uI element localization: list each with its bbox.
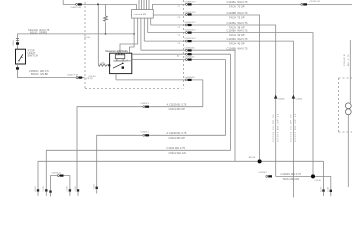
bottom connector at x323.5 <box>320 187 324 196</box>
connector C0408 row1 <box>185 3 191 5</box>
svg-text:C1245A WH 0.75: C1245A WH 0.75 <box>227 29 248 33</box>
connector C0407 on top feed wire <box>76 3 82 5</box>
svg-text:2 C03: 2 C03 <box>94 184 96 189</box>
node junction at x134 <box>133 33 135 35</box>
harness dashed boundary left <box>84 2 86 89</box>
relay pin nub <box>108 64 110 66</box>
wire row2 <box>153 15 259 159</box>
svg-text:C1234 WH 0.75: C1234 WH 0.75 <box>167 146 186 150</box>
svg-text:B1613 OP/RD: B1613 OP/RD <box>30 30 47 34</box>
svg-text:C8: C8 <box>178 17 180 19</box>
svg-text:C0375A 14: C0375A 14 <box>52 172 61 175</box>
switch contact blade <box>19 54 23 61</box>
relay coil output to right edge <box>127 60 132 61</box>
arrow on row3 drop wire <box>274 95 278 99</box>
svg-text:1K2: 1K2 <box>101 62 104 64</box>
bottom connector at x330.8 <box>328 187 332 196</box>
svg-text:C0408 W 5: C0408 W 5 <box>185 2 197 4</box>
svg-text:C0048 B: C0048 B <box>344 54 346 66</box>
svg-text:C0414 A 2: C0414 A 2 <box>185 56 196 59</box>
svg-text:B1613: B1613 <box>249 157 256 159</box>
wire bottom bus B1613 <box>38 161 324 189</box>
wire row1 <box>153 4 352 9</box>
svg-text:C0552: C0552 <box>13 40 15 46</box>
right reverse lamp bulb <box>345 103 351 109</box>
svg-text:1 C03: 1 C03 <box>328 187 330 192</box>
splice ticks on switch feed <box>16 38 19 40</box>
wire from right lamp to bottom <box>347 115 349 187</box>
connector square on switch feed <box>16 42 19 44</box>
wire row4 <box>148 33 313 175</box>
connector C0425 on relay coil row mid <box>143 134 149 136</box>
svg-text:C0375B 2: C0375B 2 <box>259 172 267 174</box>
svg-text:C2: C2 <box>178 27 180 29</box>
bottom connector at x38 <box>35 186 39 195</box>
wire resistor branch upper <box>105 4 107 34</box>
svg-text:C0411 WH-GN: C0411 WH-GN <box>169 151 186 155</box>
connector C0414 relay coil row <box>185 59 191 61</box>
svg-text:C1245A WH 0.75: C1245A WH 0.75 <box>227 0 248 4</box>
svg-text:TACH 30 OP: TACH 30 OP <box>229 33 245 37</box>
svg-text:C1245B WH 0.75: C1245B WH 0.75 <box>227 46 248 50</box>
wire relay contact row <box>77 80 203 189</box>
connector C0410 row3 <box>185 24 191 26</box>
svg-text:C1245A WH 0.75: C1245A WH 0.75 <box>227 21 248 25</box>
switch output wire <box>18 64 85 78</box>
svg-text:WH 0.75: WH 0.75 <box>348 54 350 66</box>
svg-text:C1245B WH 0.75: C1245B WH 0.75 <box>227 11 248 15</box>
stop light switch S1 <box>16 49 26 64</box>
svg-text:C0407 0 A: C0407 0 A <box>71 6 82 9</box>
connector C0406 relay output row <box>185 53 191 55</box>
harness dashed boundary right <box>183 0 185 89</box>
svg-text:C0411 W 3: C0411 W 3 <box>185 30 197 32</box>
svg-text:C1245 1 B: C1245 1 B <box>310 1 321 3</box>
svg-text:C0153 RD-OP 30: C0153 RD-OP 30 <box>277 113 279 142</box>
svg-text:1 C03: 1 C03 <box>67 186 69 191</box>
wire top feed from top edge into connector box <box>63 0 136 10</box>
connector C0425 on relay contact row mid <box>143 106 149 108</box>
connector C0405 row6 <box>185 49 191 51</box>
node junction dot B1613 <box>258 159 262 163</box>
svg-text:SWITCH: SWITCH <box>28 54 38 58</box>
bottom connector at x78 <box>75 186 79 195</box>
arrow on row5 drop wire <box>292 95 296 99</box>
svg-text:TACH 70 OP: TACH 70 OP <box>229 5 245 9</box>
node junction at x98 <box>97 3 99 5</box>
wire row5 <box>144 41 293 197</box>
svg-text:C0229 30-OP 05: C0229 30-OP 05 <box>273 114 275 142</box>
connector C0415 relay contact row <box>185 79 191 81</box>
svg-text:C0405 A 5: C0405 A 5 <box>185 47 196 50</box>
svg-text:(C0 R4: (C0 R4 <box>89 76 97 78</box>
wire bottom lamp feed <box>276 176 331 189</box>
wire ground loop left lamp <box>51 176 70 191</box>
connector C0411 row4 <box>185 32 191 34</box>
svg-text:C0425 3: C0425 3 <box>141 103 150 105</box>
svg-text:urtexted EM: urtexted EM <box>134 13 147 16</box>
reverse light relay K1 <box>110 53 132 73</box>
svg-text:C0607 0 M: C0607 0 M <box>67 74 78 76</box>
wire row6 <box>141 50 235 161</box>
connector C1245 on row1 east <box>301 3 307 5</box>
svg-text:C0412 W 4: C0412 W 4 <box>185 38 197 40</box>
bottom connector at x50.5 <box>49 190 51 196</box>
connector C0375B on lamp feed <box>266 175 272 177</box>
svg-text:C0050: C0050 <box>296 99 303 101</box>
wire resistor branch to relay coil <box>97 4 99 64</box>
connector C0412 row5 <box>185 40 191 42</box>
svg-text:A C0229 BL 0.75: A C0229 BL 0.75 <box>167 102 187 106</box>
wire row3 <box>151 25 276 176</box>
svg-text:A C0229 BL 0.75: A C0229 BL 0.75 <box>167 131 187 135</box>
wire relay output row <box>46 54 230 189</box>
relay coil <box>115 55 125 59</box>
connector C0375A on ground loop <box>57 175 63 177</box>
connector square below switch <box>16 67 19 69</box>
relay contact <box>113 63 123 68</box>
resistor R top zigzag <box>104 16 108 21</box>
harness dashed boundary bottom <box>85 88 182 90</box>
svg-text:C1245A WH 0.75: C1245A WH 0.75 <box>227 37 248 41</box>
svg-text:TACH 40 OP: TACH 40 OP <box>229 42 245 46</box>
svg-text:C0415 A 3: C0415 A 3 <box>185 76 196 79</box>
svg-text:C0425 2: C0425 2 <box>141 132 150 134</box>
bottom connector at x96.7 <box>94 184 98 193</box>
wire into right lamp <box>349 40 351 103</box>
svg-text:C0049: C0049 <box>278 99 285 101</box>
bottom connector at x69.9 <box>67 186 71 195</box>
svg-text:(C0 W): (C0 W) <box>86 78 93 80</box>
svg-text:3 C03: 3 C03 <box>75 186 77 191</box>
svg-text:C7: C7 <box>178 6 180 8</box>
svg-text:TACH WH-GN: TACH WH-GN <box>283 177 300 181</box>
right lamp dashed boundary <box>339 78 352 132</box>
svg-text:C0153 RD-OP 30: C0153 RD-OP 30 <box>295 113 297 142</box>
svg-text:2 C03: 2 C03 <box>43 186 45 191</box>
svg-text:C3: C3 <box>178 34 180 36</box>
svg-text:Reverse Light Relay: Reverse Light Relay <box>106 49 129 53</box>
svg-text:TACH 75 OP: TACH 75 OP <box>229 15 245 19</box>
relay coil stubs and bar <box>113 59 127 61</box>
connector C0607 on switch output <box>76 77 82 79</box>
resistor R2 zigzag into relay <box>98 64 109 66</box>
svg-text:A2: A2 <box>177 55 179 58</box>
bottom connector at x46.3 <box>43 186 47 195</box>
svg-text:C1234C WH 0.75: C1234C WH 0.75 <box>281 172 302 176</box>
connector C0409 row2 <box>185 13 191 15</box>
wire relay coil row <box>97 60 226 187</box>
svg-text:C0410 W 2: C0410 W 2 <box>185 22 197 24</box>
svg-text:C0229 30-OP 05: C0229 30-OP 05 <box>291 114 293 142</box>
relay pin to bottom <box>115 74 117 80</box>
svg-text:4 C03: 4 C03 <box>320 187 322 192</box>
wires above connector box <box>139 0 149 10</box>
stop light switch feed wire with labels <box>18 34 135 49</box>
wires below connector box <box>120 18 151 53</box>
svg-text:C0411 RD-OP: C0411 RD-OP <box>169 136 186 140</box>
svg-text:B1613 GN-BK: B1613 GN-BK <box>31 72 48 76</box>
node junction dot lamp feed <box>311 174 315 178</box>
node T junction resistor chain <box>105 33 107 35</box>
svg-text:C0411 RD-OP: C0411 RD-OP <box>169 107 186 111</box>
svg-text:C4: C4 <box>178 43 180 45</box>
svg-text:4 C03: 4 C03 <box>35 186 37 191</box>
svg-text:C0409 W 6: C0409 W 6 <box>185 12 197 14</box>
inline connector box C0932 <box>132 10 154 19</box>
svg-text:LP140: LP140 <box>315 180 322 182</box>
